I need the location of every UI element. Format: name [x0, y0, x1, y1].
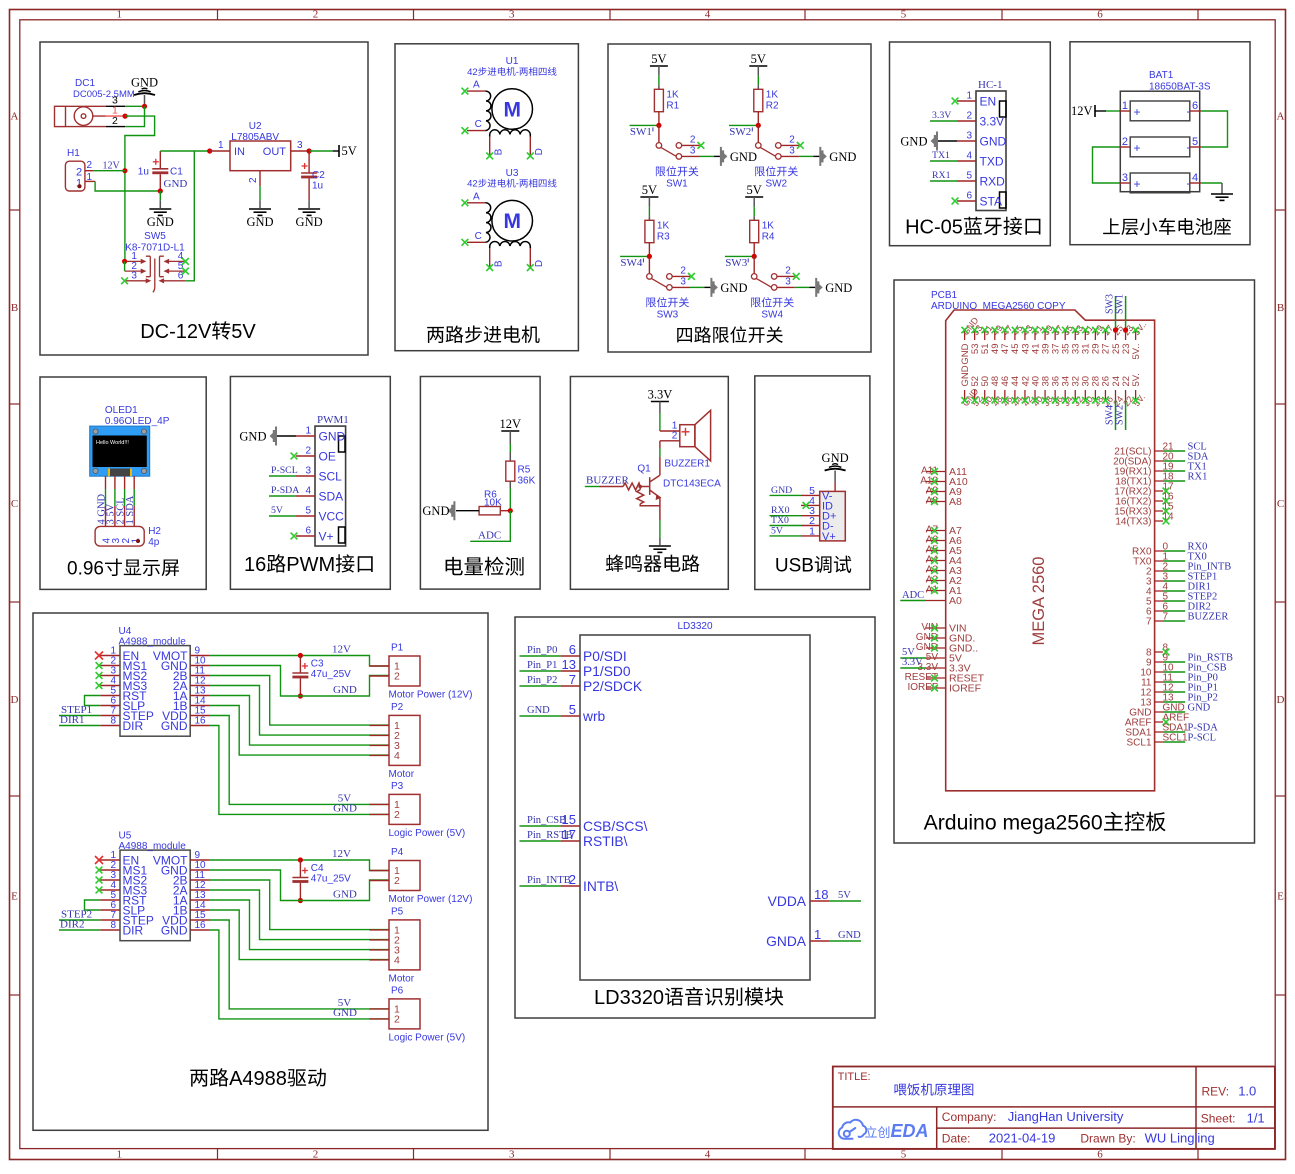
svg-text:GND: GND [333, 802, 357, 814]
OLED pin 3 5V [114, 476, 116, 489]
MEGA pin SDA1 SDA1 [1155, 731, 1163, 733]
HC-1 pin 5 RXD [957, 180, 976, 182]
svg-text:C: C [11, 498, 18, 510]
svg-text:1u: 1u [312, 181, 323, 192]
svg-text:P2/SDCK: P2/SDCK [583, 679, 643, 694]
battery cell 1 [1130, 101, 1190, 121]
svg-text:SW3: SW3 [725, 257, 748, 269]
net label SW4 [620, 255, 649, 257]
module frame A4988 [33, 613, 488, 1130]
MEGA pin 14 14(TX3) [1155, 520, 1163, 522]
svg-text:DC-12V: DC-12V [140, 321, 212, 343]
U5 pin 15 VDD [190, 919, 210, 921]
svg-text:R2: R2 [766, 100, 779, 111]
MEGA pin 4 4 [1155, 590, 1163, 592]
MEGA pin GND.. [926, 647, 946, 649]
U4 pin 10 GND [190, 665, 210, 667]
svg-text:P0/SDI: P0/SDI [583, 649, 627, 664]
svg-text:Pin_CSB: Pin_CSB [527, 815, 566, 826]
svg-text:5: 5 [569, 702, 576, 717]
header pin 40 bottom row [1034, 390, 1036, 400]
no-connect marks SW5 [121, 277, 128, 284]
wire VDD to logic conn [210, 920, 389, 1009]
svg-text:DIR: DIR [123, 719, 144, 733]
svg-text:C: C [475, 231, 482, 242]
switch SW2 [757, 125, 759, 142]
driver U5 A4988_module [120, 850, 190, 941]
svg-text:EN: EN [980, 95, 997, 109]
MEGA pin 17 17(RX2) [1155, 490, 1163, 492]
P4 pin 2 [370, 880, 390, 882]
svg-text:GND: GND [1188, 703, 1211, 714]
HC-1 pin 6 STA [957, 200, 976, 202]
SW1 pin2 [682, 144, 700, 146]
svg-text:5V: 5V [231, 321, 256, 343]
U1 pin D [529, 136, 531, 155]
header H1 [65, 161, 85, 191]
svg-text:2: 2 [394, 671, 400, 683]
switch SW1 [658, 125, 660, 142]
svg-text:B: B [494, 260, 505, 267]
power flag 5V for R2 [749, 65, 767, 67]
junction SW2 [756, 123, 761, 128]
OLED pin 1 SDA [133, 476, 135, 489]
svg-text:GND: GND [319, 430, 346, 444]
svg-text:SW2: SW2 [765, 178, 787, 189]
junction U2 IN [207, 148, 212, 153]
module frame USB [755, 376, 870, 590]
wire H1 pin1 to gnd rail [95, 181, 160, 191]
MEGA pin A0 [926, 600, 946, 602]
svg-text:P-SCL: P-SCL [1188, 733, 1217, 744]
U4 pin 16 GND [190, 725, 210, 727]
svg-text:2: 2 [313, 9, 319, 21]
svg-text:8: 8 [110, 920, 116, 931]
svg-text:4: 4 [705, 1149, 711, 1161]
HC-1 pin 2 3.3V [957, 120, 976, 122]
svg-text:SW1: SW1 [1115, 294, 1126, 314]
svg-text:BUZZER: BUZZER [586, 474, 629, 486]
svg-text:1 SDA: 1 SDA [125, 495, 136, 524]
svg-text:16: 16 [195, 716, 207, 727]
wires SW4 SW2 to pins 24 22 [1115, 400, 1117, 430]
svg-text:3: 3 [785, 276, 791, 287]
PWM1 pin 4 SDA [296, 495, 315, 497]
capacitor C1 [159, 151, 161, 169]
svg-text:SW4: SW4 [620, 257, 643, 269]
header pin 28 bottom row [1094, 390, 1096, 400]
label SW2 [755, 166, 798, 176]
svg-text:V+: V+ [822, 531, 836, 543]
svg-text:GND: GND [771, 485, 792, 496]
svg-text:6: 6 [1097, 1149, 1103, 1161]
IC LD3320 [580, 635, 810, 980]
ground C1 [149, 209, 171, 215]
svg-text:DIR: DIR [123, 924, 144, 938]
header pin GND top row [964, 330, 966, 340]
svg-text:4: 4 [394, 954, 400, 966]
MEGA pin A2 [926, 580, 946, 582]
U4 pin 8 DIR [100, 725, 120, 727]
svg-text:C1: C1 [170, 167, 183, 178]
battery cell 2 [1130, 137, 1190, 157]
svg-text:R1: R1 [666, 100, 679, 111]
U5 pin 1 EN [100, 859, 120, 861]
resistor R4 1K [750, 220, 759, 242]
wire 5V to R3 [648, 197, 650, 207]
connector P6 [389, 999, 420, 1029]
header pin 30 bottom row [1084, 390, 1086, 400]
svg-text:2: 2 [789, 134, 795, 145]
U4 pin 12 2A [190, 685, 210, 687]
connector PWM1 [315, 426, 346, 546]
P3 pin 2 [370, 813, 390, 815]
U5 pin 10 GND [190, 869, 210, 871]
U4 pin 13 1A [190, 695, 210, 697]
svg-text:A8: A8 [949, 496, 962, 508]
LD3320 pin 17 RSTIB\ [561, 840, 580, 842]
connector USB1 [820, 491, 846, 541]
power flag 12V [1094, 105, 1096, 117]
svg-text:36K: 36K [518, 476, 536, 487]
LD3320 pin 7 P2/SDCK [561, 685, 580, 687]
svg-text:2: 2 [785, 265, 791, 276]
svg-text:U5: U5 [119, 831, 132, 842]
header pin 29 top row [1094, 330, 1096, 340]
junction C1 bottom [158, 188, 163, 193]
PWM1 pin 1 GND [296, 435, 315, 437]
svg-text:GND: GND [822, 451, 849, 465]
svg-text:12V: 12V [332, 644, 351, 656]
header pin 22 bottom row [1125, 390, 1127, 400]
module frame DC-12V to 5V [40, 42, 368, 355]
SW2 pin2 [781, 144, 799, 146]
PWM1 pin 2 OE [296, 455, 315, 457]
svg-text:IN: IN [234, 146, 245, 158]
svg-text:M: M [503, 210, 521, 233]
header pin 38 bottom row [1044, 390, 1046, 400]
U4 pin 3 MS2 [100, 675, 120, 677]
title Arduino mega2560主控板 [924, 812, 1166, 835]
MEGA pin 19 19(RX1) [1155, 470, 1163, 472]
svg-text:Date:: Date: [942, 1132, 971, 1146]
U5 pin 3 MS2 [100, 879, 120, 881]
svg-text:8: 8 [110, 716, 116, 727]
wire 12V net from DC1 pin1 [125, 116, 155, 261]
svg-text:Logic Power (5V): Logic Power (5V) [389, 1032, 466, 1043]
PWM1 pin 3 SCL [296, 475, 315, 477]
svg-text:GND: GND [838, 930, 861, 941]
resistor R2 1K [754, 89, 763, 111]
header pin 35 top row [1064, 330, 1066, 340]
wire 1A to motor conn [210, 900, 389, 950]
svg-text:3: 3 [690, 145, 696, 156]
wire GND to logic conn [210, 726, 389, 815]
svg-text:+: + [1134, 177, 1141, 191]
junction C bottom [298, 693, 303, 698]
svg-text:U4: U4 [119, 626, 132, 637]
svg-text:6: 6 [1192, 100, 1198, 112]
svg-text:D: D [534, 148, 545, 155]
U5 pin 12 2A [190, 889, 210, 891]
power flag 3.3V buzzer [651, 401, 669, 403]
svg-text:VDDA: VDDA [768, 894, 807, 909]
svg-text:Arduino mega2560: Arduino mega2560 [924, 812, 1103, 835]
svg-text:SW5: SW5 [144, 231, 166, 242]
MEGA pin 0 RX0 [1155, 550, 1163, 552]
net label SW2 [729, 124, 758, 126]
ground flag detect [448, 501, 456, 520]
svg-text:2: 2 [248, 177, 259, 183]
P1 pin 1 [370, 665, 390, 667]
svg-text:18: 18 [814, 887, 828, 902]
module frame battery [1070, 42, 1250, 245]
P1 pin 2 [370, 675, 390, 677]
svg-text:5V: 5V [838, 890, 851, 901]
svg-text:2: 2 [672, 430, 678, 441]
header pin 5V. bottom row [1135, 390, 1137, 400]
OLED1 module [90, 426, 150, 476]
header pin 36 bottom row [1054, 390, 1056, 400]
svg-text:U2: U2 [249, 121, 262, 132]
svg-text:3.3V: 3.3V [932, 110, 951, 121]
label SW4 [751, 297, 794, 307]
MCU body MEGA2560 [946, 310, 1155, 791]
wire R5 to junction [509, 481, 511, 488]
svg-text:B: B [494, 148, 505, 155]
module frame OLED [40, 377, 206, 589]
title USB调试 [775, 556, 851, 577]
header pin 49 top row [994, 330, 996, 340]
U3 pin C [467, 241, 485, 243]
MEGA pin 3.3V [926, 667, 946, 669]
MEGA pin A5 [926, 550, 946, 552]
svg-text:SW3: SW3 [657, 309, 679, 320]
junction DC1 pin1 [123, 114, 128, 119]
power flag 5V [338, 145, 340, 157]
svg-text:U3: U3 [506, 168, 519, 179]
svg-text:5: 5 [1192, 136, 1198, 148]
svg-text:A0: A0 [949, 595, 962, 607]
svg-text:1K: 1K [766, 89, 779, 100]
svg-text:GND: GND [246, 215, 273, 229]
svg-text:Pin_P1: Pin_P1 [527, 660, 557, 671]
header pin 27 top row [1104, 330, 1106, 340]
svg-text:GND: GND [527, 705, 550, 716]
connector P4 [389, 861, 420, 891]
svg-text:3.3V: 3.3V [902, 657, 923, 668]
MEGA pin A9 [926, 491, 946, 493]
wire OUT to 5V flag [309, 150, 333, 152]
P2 pin 2 [370, 734, 390, 736]
MEGA pin A10 [926, 481, 946, 483]
svg-text:5V: 5V [651, 52, 666, 66]
module frame PWM [230, 377, 390, 590]
LD3320 pin 5 wrb [561, 715, 580, 717]
svg-text:GNDA: GNDA [766, 934, 807, 949]
svg-text:3.3V: 3.3V [980, 115, 1005, 129]
MEGA pin A1 [926, 590, 946, 592]
header pin 42 bottom row [1024, 390, 1026, 400]
svg-text:16: 16 [195, 920, 207, 931]
no-connect U4 MS1 [96, 662, 103, 669]
svg-text:2: 2 [690, 134, 696, 145]
net label SW3 [725, 255, 754, 257]
svg-text:P3: P3 [391, 781, 404, 792]
MEGA pin 8 8 [1155, 651, 1163, 653]
svg-text:R4: R4 [762, 231, 775, 242]
svg-text:ADC: ADC [478, 529, 501, 541]
svg-text:INTB\: INTB\ [583, 879, 618, 894]
U4 pin 5 RST [100, 695, 120, 697]
resistor R5 36K [506, 461, 515, 481]
P6 pin 1 [370, 1008, 390, 1010]
title block [833, 1067, 1275, 1150]
wire VMOT 12V rail [210, 656, 389, 667]
svg-text:H1: H1 [67, 148, 80, 159]
header pin 41 top row [1034, 330, 1036, 340]
svg-text:5V: 5V [751, 52, 766, 66]
svg-text:H2: H2 [148, 526, 161, 537]
svg-text:Pin_RSTB: Pin_RSTB [527, 830, 573, 841]
svg-text:1: 1 [87, 172, 93, 183]
svg-text:P1: P1 [391, 643, 404, 654]
resistor R6 10K [479, 507, 500, 515]
MEGA pin 5 5 [1155, 600, 1163, 602]
MEGA pin A4 [926, 560, 946, 562]
no-connect U5 MS1 [96, 867, 103, 874]
wire gnd to V- [834, 471, 836, 483]
switch SW5 [125, 256, 186, 292]
USB pin 5 V- [801, 494, 820, 496]
header pin 31 top row [1084, 330, 1086, 340]
MEGA pin A6 [926, 540, 946, 542]
svg-text:P4: P4 [391, 847, 404, 858]
wire cell1- to cell2- [1201, 111, 1227, 147]
svg-text:LD3320: LD3320 [594, 987, 664, 1009]
svg-text:-: - [516, 67, 519, 78]
wire pin3 to GND [795, 286, 809, 288]
LD3320 pin 6 P0/SDI [561, 655, 580, 657]
svg-text:5V: 5V [771, 525, 783, 536]
svg-text:TX0: TX0 [771, 515, 789, 526]
capacitor C3 47u_25V [299, 656, 301, 674]
MEGA pin 16 16(TX2) [1155, 500, 1163, 502]
U3 pin A [467, 202, 485, 204]
title 四路限位开关 [677, 326, 783, 343]
junction C top [298, 857, 303, 862]
connector P2 [389, 715, 420, 765]
U4 pin 11 2B [190, 675, 210, 677]
svg-text:C4: C4 [311, 863, 324, 874]
header pin 44 bottom row [1014, 390, 1016, 400]
svg-text:P-SDA: P-SDA [271, 485, 299, 496]
header pin 33 top row [1074, 330, 1076, 340]
wire cell3- to ground [1201, 182, 1222, 184]
svg-text:SDA: SDA [319, 490, 344, 504]
switch SW3 [648, 256, 650, 273]
svg-text:PWM: PWM [286, 554, 335, 576]
ground flag USB [825, 464, 846, 471]
PWM1 pin 5 VCC [296, 515, 315, 517]
svg-text:SW1: SW1 [630, 126, 652, 138]
svg-text:1K: 1K [666, 89, 679, 100]
svg-text:16: 16 [244, 554, 266, 576]
svg-text:7: 7 [1146, 617, 1152, 628]
svg-text:A: A [473, 80, 480, 91]
svg-text:DIR2: DIR2 [60, 919, 84, 931]
module frame battery level [420, 377, 540, 590]
svg-text:3: 3 [509, 1149, 515, 1161]
MEGA pin 9 9 [1155, 661, 1163, 663]
svg-text:2: 2 [87, 160, 93, 171]
svg-text:GND: GND [161, 924, 188, 938]
svg-text:6: 6 [305, 526, 311, 537]
svg-text:2: 2 [394, 809, 400, 821]
no-connect U5 MS3 [96, 887, 103, 894]
ground buzzer [649, 546, 671, 552]
LD3320 pin 15 CSB/SCS\ [561, 825, 580, 827]
connector P1 [389, 656, 420, 686]
svg-text:GND: GND [333, 1007, 357, 1019]
regulator U2 L7805ABV [230, 141, 291, 171]
MEGA pin 12 12 [1155, 691, 1163, 693]
title 两路A4988驱动 [190, 1068, 325, 1090]
svg-text:TX1: TX1 [932, 150, 950, 161]
USB pin 4 ID [801, 504, 820, 506]
MEGA pin GND GND [1155, 711, 1163, 713]
svg-text:2: 2 [394, 875, 400, 887]
svg-text:7: 7 [569, 672, 576, 687]
U1 pin C [467, 130, 485, 132]
DC1 pin 3 [106, 105, 125, 107]
power flag 12V detect [501, 430, 519, 432]
header pin 34 bottom row [1064, 390, 1066, 400]
svg-text:1K: 1K [657, 220, 670, 231]
svg-text:5: 5 [966, 171, 972, 182]
DC1 pin 2 [106, 126, 125, 128]
svg-text:CSB/SCS\: CSB/SCS\ [583, 819, 648, 834]
svg-text:5V: 5V [747, 183, 762, 197]
U5 pin 5 RST [100, 899, 120, 901]
capacitor C2 [308, 151, 310, 173]
svg-text:PWM1: PWM1 [317, 414, 349, 426]
header H2 [95, 526, 144, 546]
power flag 5V for R3 [640, 196, 658, 198]
ground flag GND top [134, 88, 155, 95]
module frame stepper motors [395, 44, 578, 351]
svg-text:2: 2 [680, 265, 686, 276]
wire 2A to motor conn [210, 686, 389, 736]
svg-text:3: 3 [789, 145, 795, 156]
wire VMOT 12V rail [210, 860, 389, 871]
MEGA pin 1 TX0 [1155, 560, 1163, 562]
wire 1B to motor conn [210, 910, 389, 960]
svg-text:VCC: VCC [319, 510, 345, 524]
wire 2A to motor conn [210, 890, 389, 940]
MEGA pin 15 15(RX3) [1155, 510, 1163, 512]
title 两路步进电机 [427, 326, 539, 344]
DC1 pin 1 [106, 115, 125, 117]
svg-text:3.3V: 3.3V [648, 388, 673, 402]
module frame Arduino [894, 280, 1255, 843]
net label DIR1 [59, 725, 100, 727]
header pin 53 top row [974, 330, 976, 340]
U5 pin 9 VMOT [190, 859, 210, 861]
header pin GND bottom row [964, 390, 966, 400]
svg-text:1K: 1K [762, 220, 775, 231]
header pin 43 top row [1024, 330, 1026, 340]
